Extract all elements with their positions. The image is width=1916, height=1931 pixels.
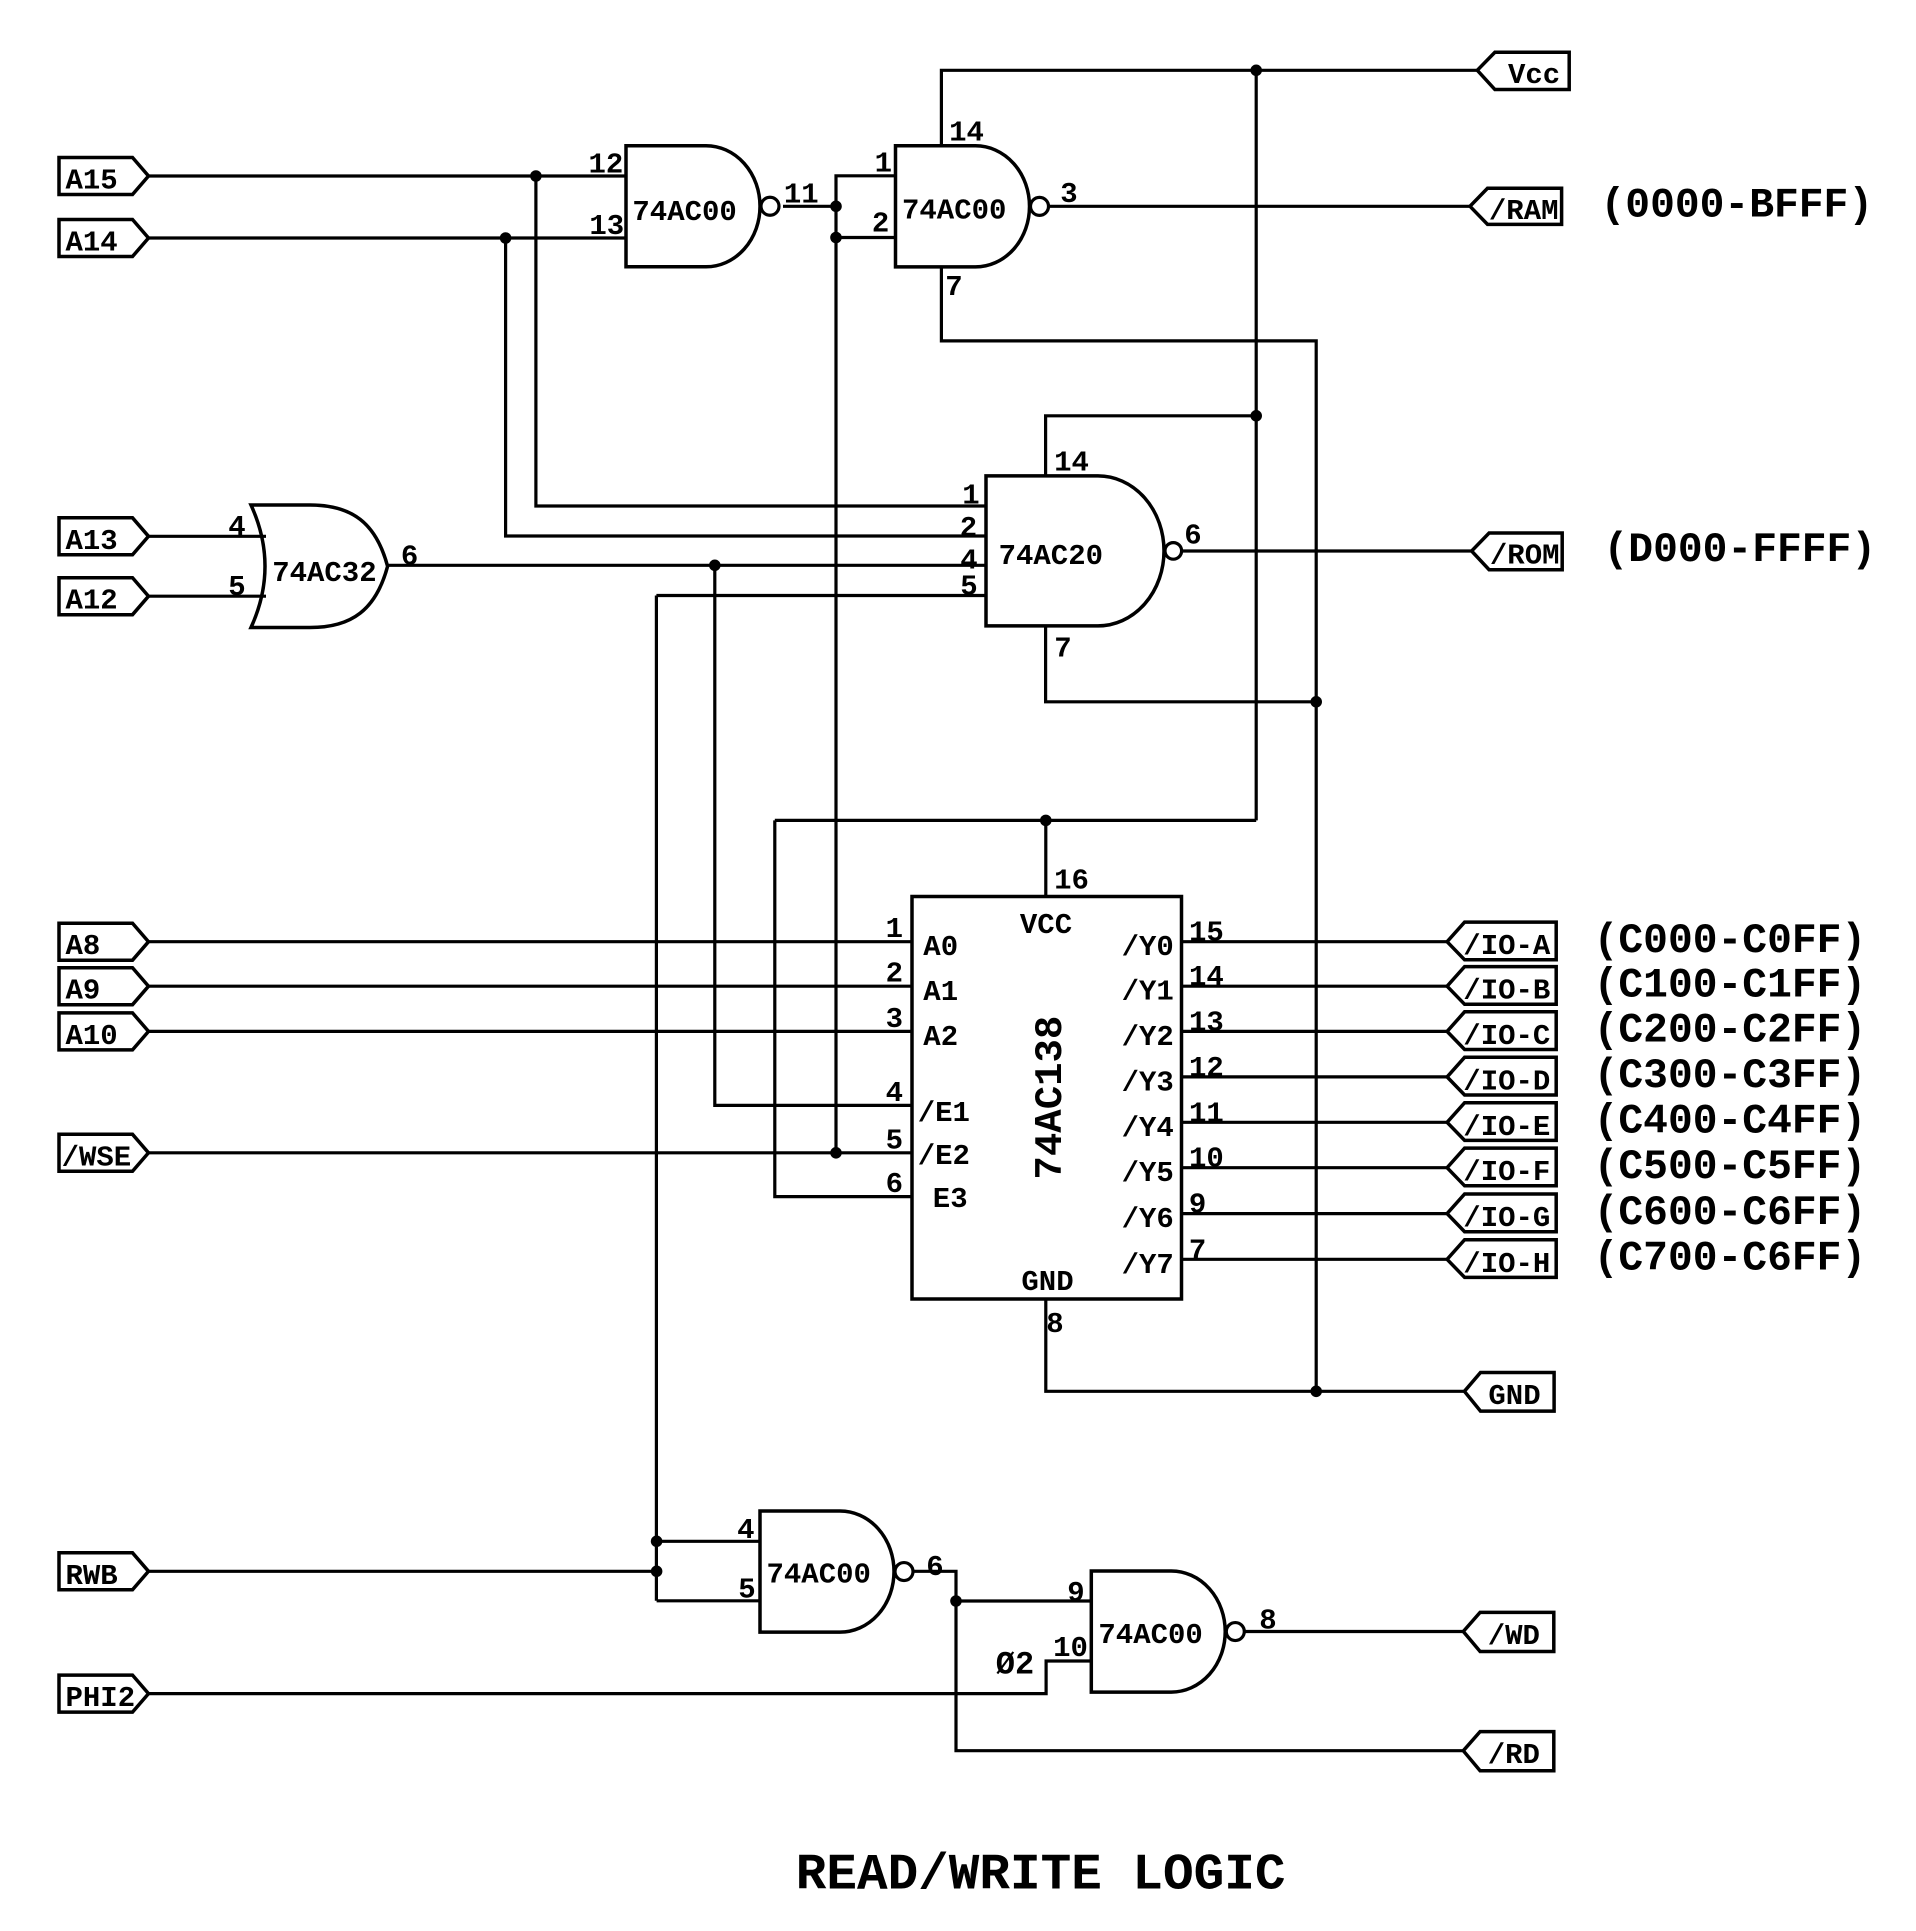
svg-text:/Y4: /Y4: [1122, 1112, 1174, 1145]
junction A15 branch: [530, 170, 542, 182]
input tag A12: [59, 578, 149, 615]
svg-text:(0000-BFFF): (0000-BFFF): [1601, 184, 1874, 230]
svg-text:74AC00: 74AC00: [902, 195, 1006, 228]
svg-text:74AC138: 74AC138: [1029, 1016, 1073, 1180]
svg-text:(D000-FFFF): (D000-FFFF): [1604, 528, 1877, 574]
svg-text:11: 11: [1189, 1097, 1224, 1130]
output tag /ROM: [1472, 533, 1563, 570]
wire U3 output pin 6 to /ROM: [1181, 549, 1472, 552]
svg-text:4: 4: [737, 1514, 754, 1547]
wire U1A output pin 11: [783, 205, 836, 208]
wire U4 /Y5 to /IO-F: [1182, 1166, 1448, 1169]
svg-text:14: 14: [1054, 447, 1089, 480]
wire node down to /RD: [956, 1601, 1463, 1751]
svg-text:13: 13: [589, 210, 624, 243]
svg-text:2: 2: [872, 208, 889, 241]
wire U1B pin 7 ground route: [941, 267, 1316, 1391]
svg-text:A2: A2: [923, 1021, 958, 1054]
svg-text:(C000-C0FF): (C000-C0FF): [1594, 919, 1867, 965]
svg-text:11: 11: [784, 178, 819, 211]
svg-text:PHI2: PHI2: [66, 1682, 136, 1715]
junction U1A out to U1B inputs: [830, 201, 842, 213]
junction U2A out branch: [709, 560, 721, 572]
junction RWB at node: [651, 1566, 663, 1578]
svg-text:(C200-C2FF): (C200-C2FF): [1594, 1009, 1867, 1055]
svg-text:7: 7: [1054, 633, 1071, 666]
output tag GND: [1464, 1373, 1554, 1412]
wire A8 to U4 A0: [149, 940, 913, 943]
svg-text:12: 12: [588, 149, 623, 182]
svg-text:6: 6: [926, 1551, 943, 1584]
svg-text:74AC00: 74AC00: [632, 196, 736, 229]
svg-text:/IO-B: /IO-B: [1463, 975, 1550, 1008]
wire Vcc vertical rail: [1255, 70, 1258, 820]
svg-text:A10: A10: [66, 1020, 118, 1053]
svg-text:E3: E3: [933, 1183, 968, 1216]
svg-text:/ROM: /ROM: [1490, 540, 1560, 573]
svg-text:(C700-C6FF): (C700-C6FF): [1594, 1237, 1867, 1283]
junction U1C out to U1D pin 9: [950, 1595, 962, 1607]
nand gate U1D 74AC00: [1091, 1571, 1225, 1692]
output tag /IO-H: [1447, 1240, 1556, 1278]
svg-text:(C400-C4FF): (C400-C4FF): [1594, 1100, 1867, 1146]
output tag /RD: [1463, 1732, 1554, 1771]
junction A14 branch: [500, 232, 512, 244]
output tag /IO-G: [1447, 1194, 1556, 1232]
wire node down from U3 pin5 corner to RWB: [655, 596, 658, 1601]
svg-text:7: 7: [1189, 1234, 1206, 1267]
svg-text:(C600-C6FF): (C600-C6FF): [1594, 1191, 1867, 1237]
svg-text:/IO-G: /IO-G: [1463, 1202, 1550, 1235]
output tag Vcc: [1477, 52, 1569, 89]
svg-text:10: 10: [1053, 1632, 1088, 1665]
wire U4 /Y0 to /IO-A: [1182, 940, 1448, 943]
svg-text:GND: GND: [1021, 1266, 1073, 1299]
wire U3 pin 5 from A12/A13 node: [656, 594, 986, 597]
nand4 gate U3 74AC20: [986, 476, 1164, 626]
wire A14 to U1A pin 13: [149, 236, 627, 239]
svg-text:/IO-E: /IO-E: [1463, 1111, 1550, 1144]
wire node11 down to U4 /E2: [834, 238, 837, 1153]
svg-text:(C500-C5FF): (C500-C5FF): [1594, 1145, 1867, 1191]
wire U4 pin 16 stub: [1044, 820, 1047, 897]
svg-text:5: 5: [738, 1574, 755, 1607]
wire U1B output pin 3 to /RAM: [1049, 205, 1471, 208]
svg-text:1: 1: [875, 148, 892, 181]
svg-text:A15: A15: [66, 165, 118, 198]
output tag /IO-B: [1447, 967, 1556, 1005]
input tag A15: [59, 158, 149, 195]
svg-text:15: 15: [1189, 917, 1224, 950]
svg-text:A8: A8: [66, 930, 101, 963]
wire U4 /Y3 to /IO-D: [1182, 1075, 1448, 1078]
wire A14 branch down to U3 pin 2: [506, 238, 986, 536]
svg-text:10: 10: [1189, 1143, 1224, 1176]
wire Vcc rail elbow to E3 rail: [775, 819, 1256, 822]
svg-text:/Y2: /Y2: [1122, 1021, 1174, 1054]
wire U1B pin 14 to Vcc rail: [941, 70, 1477, 146]
svg-text:/Y7: /Y7: [1122, 1249, 1174, 1282]
svg-text:/IO-C: /IO-C: [1463, 1020, 1550, 1053]
junction U1C pin 4 tee: [651, 1536, 663, 1548]
svg-text:/RD: /RD: [1488, 1739, 1540, 1772]
svg-text:RWB: RWB: [66, 1560, 118, 1593]
input tag /WSE: [59, 1134, 149, 1171]
svg-text:74AC00: 74AC00: [767, 1559, 871, 1592]
svg-text:1: 1: [886, 913, 903, 946]
wire RWB to U1C pin 5 node: [149, 1570, 657, 1573]
junction ground rail at GND wire: [1310, 1386, 1322, 1398]
input tag A8: [59, 923, 149, 960]
svg-text:5: 5: [228, 571, 245, 604]
svg-text:VCC: VCC: [1020, 909, 1072, 942]
svg-text:8: 8: [1046, 1308, 1063, 1341]
svg-text:14: 14: [949, 117, 984, 150]
wire A15 branch down to U3 pin 1: [536, 176, 986, 506]
output tag /IO-C: [1447, 1012, 1556, 1050]
wire A10 to U4 A2: [149, 1030, 913, 1033]
output tag /IO-D: [1447, 1057, 1556, 1095]
svg-text:(C300-C3FF): (C300-C3FF): [1594, 1054, 1867, 1100]
svg-text:7: 7: [945, 271, 962, 304]
wire U4 /Y7 to /IO-H: [1182, 1258, 1448, 1261]
wire PHI2 to U1D pin 10: [149, 1661, 1092, 1694]
svg-text:A12: A12: [66, 585, 118, 618]
output tag /IO-A: [1447, 922, 1556, 960]
svg-text:74AC20: 74AC20: [999, 540, 1103, 573]
svg-text:/E1: /E1: [918, 1097, 970, 1130]
input tag A10: [59, 1013, 149, 1050]
junction Vcc rail: [1250, 65, 1262, 77]
svg-text:/WSE: /WSE: [62, 1141, 132, 1174]
svg-text:6: 6: [1184, 520, 1201, 553]
junction U1B pin 2 tee: [830, 232, 842, 244]
input tag RWB: [59, 1553, 149, 1590]
output tag /IO-F: [1447, 1148, 1556, 1186]
svg-text:/Y1: /Y1: [1122, 976, 1174, 1009]
input tag A14: [59, 220, 149, 257]
svg-text:A1: A1: [923, 976, 958, 1009]
svg-text:/IO-D: /IO-D: [1463, 1065, 1550, 1098]
wire U4 /Y2 to /IO-C: [1182, 1030, 1448, 1033]
wire A9 to U4 A1: [149, 985, 913, 988]
svg-text:/IO-F: /IO-F: [1463, 1156, 1550, 1189]
svg-text:5: 5: [960, 570, 977, 603]
svg-text:4: 4: [228, 511, 245, 544]
wire U3 pin 7 to ground rail: [1046, 626, 1317, 702]
svg-text:1: 1: [962, 480, 979, 513]
svg-text:5: 5: [886, 1124, 903, 1157]
wire U4 /Y1 to /IO-B: [1182, 985, 1448, 988]
svg-text:4: 4: [886, 1077, 903, 1110]
junction U3 pin7 at ground rail: [1310, 696, 1322, 708]
or gate U2A 74AC32: [251, 505, 388, 628]
junction U3 pin14 at Vcc rail: [1250, 410, 1262, 422]
nand gate U1A 74AC00: [626, 146, 760, 267]
svg-text:16: 16: [1054, 865, 1089, 898]
svg-text:A9: A9: [66, 975, 101, 1008]
svg-text:9: 9: [1067, 1577, 1084, 1610]
svg-text:13: 13: [1189, 1006, 1224, 1039]
svg-text:/RAM: /RAM: [1489, 195, 1559, 228]
wire U4 pin 8 to GND tag: [1046, 1299, 1465, 1391]
svg-text:/Y6: /Y6: [1122, 1203, 1174, 1236]
svg-text:/IO-A: /IO-A: [1463, 930, 1551, 963]
wire A15 to U1A pin 12: [149, 174, 627, 177]
wire E3 rail down: [775, 820, 912, 1196]
junction U4 pin16 at Vcc elbow: [1040, 815, 1052, 827]
ic box U4 74AC138: [912, 897, 1182, 1300]
wire node6 down to U4 /E1: [715, 565, 912, 1105]
svg-text:Vcc: Vcc: [1508, 59, 1560, 92]
svg-text:2: 2: [886, 958, 903, 991]
svg-text:A13: A13: [66, 525, 118, 558]
wire U2A output to U3 pin 4: [388, 564, 986, 567]
svg-text:A0: A0: [923, 931, 958, 964]
svg-text:/Y5: /Y5: [1122, 1157, 1174, 1190]
svg-text:2: 2: [960, 512, 977, 545]
svg-text:Ø2: Ø2: [996, 1647, 1034, 1684]
input tag PHI2: [59, 1675, 149, 1712]
svg-text:12: 12: [1189, 1052, 1224, 1085]
svg-text:GND: GND: [1488, 1380, 1540, 1413]
junction node11 at /WSE wire: [830, 1147, 842, 1159]
output tag /RAM: [1470, 188, 1562, 224]
svg-text:6: 6: [401, 541, 418, 574]
svg-text:A14: A14: [66, 227, 118, 260]
wire node11 up to U1B pin 1: [836, 176, 896, 207]
wire U1C pin 5: [657, 1599, 760, 1602]
svg-text:/IO-H: /IO-H: [1463, 1248, 1550, 1281]
wire /WSE to U4 /E2: [149, 1151, 913, 1154]
svg-text:74AC00: 74AC00: [1098, 1619, 1202, 1652]
svg-text:/Y3: /Y3: [1122, 1066, 1174, 1099]
wire U4 /Y6 to /IO-G: [1182, 1212, 1448, 1215]
svg-text:9: 9: [1189, 1189, 1206, 1222]
svg-text:READ/WRITE LOGIC: READ/WRITE LOGIC: [796, 1847, 1286, 1904]
nand gate U1C 74AC00: [760, 1511, 894, 1632]
input tag A9: [59, 968, 149, 1005]
wire U1C output pin 6: [913, 1571, 956, 1601]
svg-text:6: 6: [886, 1168, 903, 1201]
svg-text:3: 3: [886, 1003, 903, 1036]
svg-text:/Y0: /Y0: [1122, 931, 1174, 964]
nand gate U1B 74AC00: [896, 146, 1030, 267]
wire U3 pin 14 to Vcc rail: [1046, 416, 1257, 476]
wire A13 to U2A pin 4: [149, 535, 267, 538]
wire A12 to U2A pin 5: [149, 595, 267, 598]
svg-text:14: 14: [1189, 961, 1224, 994]
wire U1D output pin 8 to /WD: [1245, 1630, 1464, 1633]
svg-text:/WD: /WD: [1488, 1620, 1540, 1653]
svg-text:74AC32: 74AC32: [272, 557, 376, 590]
wire node to U1D pin 9: [956, 1599, 1091, 1602]
wire node11 down to U1B pin 2: [836, 206, 896, 237]
svg-text:/E2: /E2: [918, 1140, 970, 1173]
output tag /WD: [1463, 1612, 1554, 1651]
output tag /IO-E: [1447, 1103, 1556, 1141]
svg-text:(C100-C1FF): (C100-C1FF): [1594, 963, 1867, 1009]
wire U1C pin 4: [657, 1540, 760, 1543]
input tag A13: [59, 518, 149, 555]
wire U4 /Y4 to /IO-E: [1182, 1121, 1448, 1124]
